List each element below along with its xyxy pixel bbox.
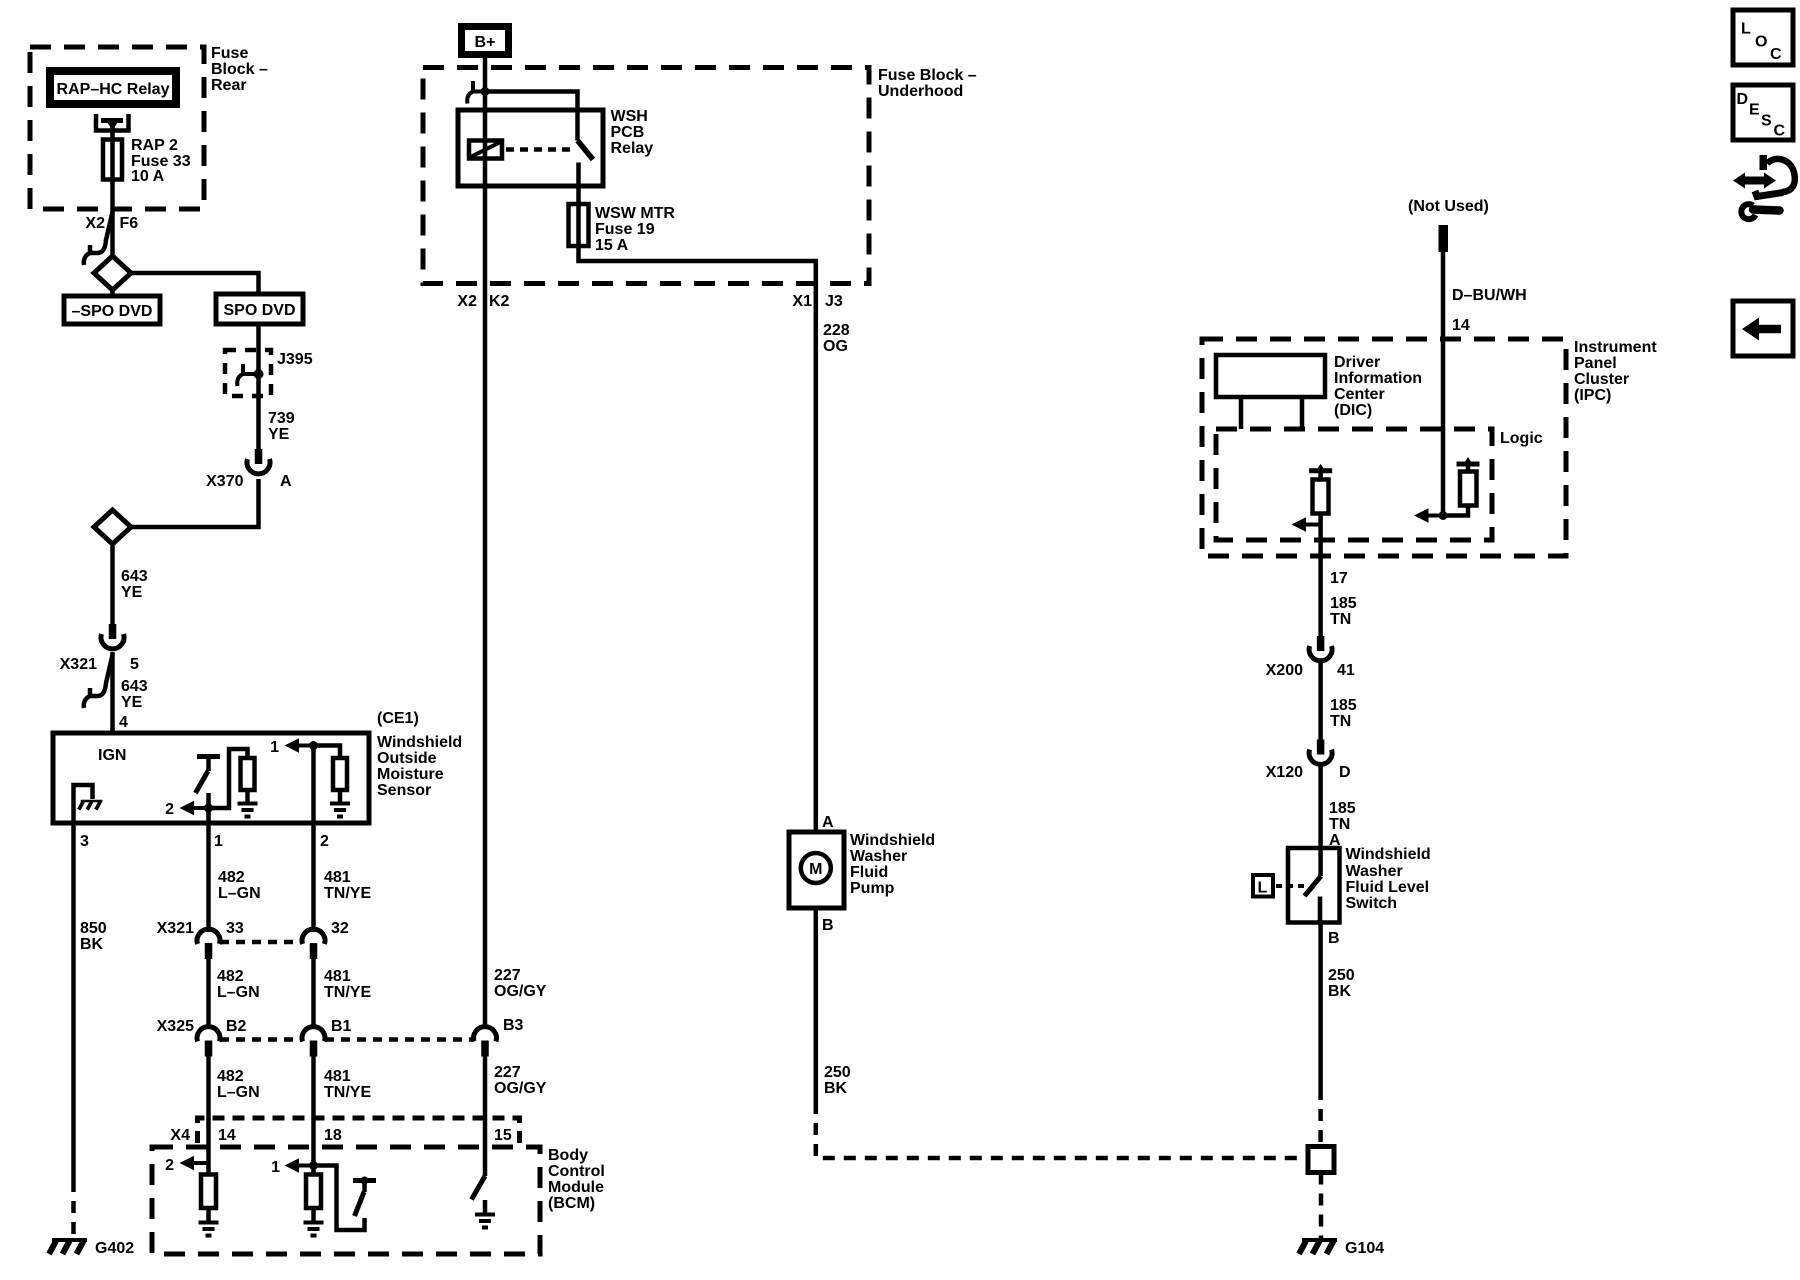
svg-text:X4: X4 xyxy=(170,1127,190,1144)
svg-text:(CE1): (CE1) xyxy=(377,710,419,727)
svg-text:1: 1 xyxy=(271,1159,280,1176)
svg-text:Rear: Rear xyxy=(211,77,247,94)
wire 228 OG (J3 down) xyxy=(814,283,819,832)
wire 250 BK (switch) xyxy=(1318,922,1323,1088)
wire dashed to G402 xyxy=(71,1180,76,1239)
wire 481 TN/YE segment 1 xyxy=(311,823,316,932)
svg-text:(DIC): (DIC) xyxy=(1334,402,1372,419)
wire 481 TN/YE segment 3 xyxy=(311,1056,316,1147)
resistor (sensor R1) xyxy=(241,758,255,790)
relay RAP-HC Relay xyxy=(50,71,176,104)
BCM switch xyxy=(353,1177,376,1217)
svg-text:–SPO DVD: –SPO DVD xyxy=(72,303,153,320)
label 250 BK xyxy=(824,1064,851,1097)
svg-text:Fuse 19: Fuse 19 xyxy=(595,221,655,238)
svg-text:BK: BK xyxy=(80,936,104,953)
ground (BCM pin 15) xyxy=(475,1200,495,1228)
connector X325 row labels xyxy=(157,1017,524,1035)
svg-text:10 A: 10 A xyxy=(131,168,165,185)
dashed wire pump to splice xyxy=(816,1102,1308,1158)
svg-text:Windshield: Windshield xyxy=(1346,846,1431,863)
svg-text:G104: G104 xyxy=(1345,1240,1384,1257)
splice S2 diamond xyxy=(94,510,131,544)
wire D-BU/WH xyxy=(1441,252,1446,516)
connector X120 inline xyxy=(1309,740,1332,765)
ground (sensor R1) xyxy=(238,789,258,817)
svg-text:WSH: WSH xyxy=(611,108,648,125)
svg-text:X120: X120 xyxy=(1266,764,1303,781)
label RAP 2 Fuse 33 10 A xyxy=(131,137,191,185)
relay switch lever xyxy=(578,141,594,247)
svg-text:C: C xyxy=(1774,123,1786,140)
connector X325 link dashed 2 xyxy=(325,1037,474,1042)
svg-text:Logic: Logic xyxy=(1500,430,1543,447)
svg-text:Control: Control xyxy=(548,1163,605,1180)
svg-text:Washer: Washer xyxy=(850,848,907,865)
sensor pin3 ground path xyxy=(74,785,93,823)
curl below X321 xyxy=(84,655,113,708)
BCM wire pin 18 xyxy=(311,1147,316,1175)
svg-text:OG/GY: OG/GY xyxy=(494,983,547,1000)
arrow out (logic left) xyxy=(1292,517,1321,531)
fuse block - rear (dashed box) xyxy=(30,47,204,209)
svg-text:739: 739 xyxy=(268,410,295,427)
svg-text:E: E xyxy=(1749,102,1760,119)
svg-text:17: 17 xyxy=(1330,570,1348,587)
component Windshield Washer Fluid Level Switch xyxy=(1288,848,1340,923)
svg-text:D–BU/WH: D–BU/WH xyxy=(1452,287,1527,304)
wire 481 TN/YE segment 2 xyxy=(311,958,316,1029)
fuse RAP 2 Fuse 33 10A xyxy=(103,140,122,180)
label 482 L-GN xyxy=(218,869,261,902)
svg-text:YE: YE xyxy=(121,694,143,711)
svg-text:15: 15 xyxy=(494,1127,512,1144)
svg-text:O: O xyxy=(1755,34,1767,51)
wire fuse to X1 exit xyxy=(579,246,816,283)
logic dashed box xyxy=(1216,429,1492,540)
relay coil xyxy=(469,141,502,159)
svg-text:TN: TN xyxy=(1330,611,1351,628)
svg-text:228: 228 xyxy=(823,322,850,339)
connector X325 pin B1 xyxy=(302,1027,325,1057)
svg-text:TN/YE: TN/YE xyxy=(324,984,371,1001)
svg-text:Washer: Washer xyxy=(1346,863,1403,880)
curl (underhood) xyxy=(467,81,481,104)
resistor (sensor R2) xyxy=(333,758,347,790)
level switch lever xyxy=(1305,876,1322,922)
svg-text:WSW MTR: WSW MTR xyxy=(595,205,675,222)
relay dashed link xyxy=(506,147,570,152)
svg-text:Switch: Switch xyxy=(1346,895,1398,912)
sensor resistor branch 1 xyxy=(209,749,248,808)
connector X4 strip (dotted) xyxy=(198,1118,520,1143)
svg-text:1: 1 xyxy=(270,739,279,756)
svg-text:TN: TN xyxy=(1330,713,1351,730)
svg-text:2: 2 xyxy=(320,833,329,850)
svg-text:B: B xyxy=(822,917,834,934)
sensor resistor branch 2 xyxy=(314,746,341,759)
labels X200 41 xyxy=(1266,662,1355,679)
svg-text:482: 482 xyxy=(217,1068,244,1085)
svg-text:Body: Body xyxy=(548,1147,588,1164)
svg-text:A: A xyxy=(280,473,292,490)
svg-text:482: 482 xyxy=(217,968,244,985)
svg-text:481: 481 xyxy=(324,869,351,886)
splice pack J395 (dashed box) xyxy=(225,350,271,396)
connector X325 pin B2 xyxy=(197,1027,220,1057)
wire 250 BK (pump) xyxy=(814,908,819,1102)
svg-text:Sensor: Sensor xyxy=(377,782,431,799)
pullup resistor left (logic) xyxy=(1309,464,1332,514)
svg-text:643: 643 xyxy=(121,678,148,695)
svg-text:(BCM): (BCM) xyxy=(548,1195,595,1212)
svg-text:(IPC): (IPC) xyxy=(1574,387,1611,404)
icon DESC button xyxy=(1733,85,1793,140)
junction xyxy=(204,804,213,813)
wire B+ down through coil xyxy=(483,55,488,283)
connector X200 inline xyxy=(1309,636,1332,661)
ground (BCM R1) xyxy=(199,1208,219,1236)
resistor (BCM R2) xyxy=(306,1175,321,1209)
svg-text:481: 481 xyxy=(324,1068,351,1085)
terminal SPO DVD xyxy=(216,294,303,324)
svg-text:Information: Information xyxy=(1334,370,1422,387)
wire 227 OG/GY (K2 down) xyxy=(483,283,488,1029)
label 643 YE (2) xyxy=(121,678,148,711)
svg-text:B3: B3 xyxy=(503,1017,524,1034)
connector X321 link dashed xyxy=(220,940,302,945)
connector X325 pin B3 xyxy=(474,1027,497,1057)
labels X370 A xyxy=(206,473,292,490)
svg-text:Fluid: Fluid xyxy=(850,864,888,881)
svg-text:PCB: PCB xyxy=(611,124,645,141)
sensor wire pin1 internal xyxy=(206,793,211,823)
wire X370 to splice S2 xyxy=(131,479,259,527)
arrow 2 xyxy=(165,801,208,818)
svg-text:X2: X2 xyxy=(457,293,477,310)
wire SPO DVD down to X370 xyxy=(256,324,261,449)
dashed wire switch to splice xyxy=(1318,1088,1323,1147)
svg-text:L–GN: L–GN xyxy=(217,984,260,1001)
label WSW MTR Fuse 19 15 A xyxy=(595,205,675,254)
svg-text:Fluid Level: Fluid Level xyxy=(1346,879,1430,896)
component Windshield Washer Fluid Pump xyxy=(789,832,844,908)
junction xyxy=(1439,511,1448,520)
splice box xyxy=(1308,1147,1334,1173)
connector X321 inline xyxy=(101,624,124,649)
chassis ground (sensor) xyxy=(79,801,103,810)
connector X2/F6 labels xyxy=(85,215,138,232)
terminal -SPO DVD xyxy=(64,296,160,324)
svg-text:481: 481 xyxy=(324,968,351,985)
connector X325 link dashed xyxy=(220,1037,302,1042)
BCM arrow 1 xyxy=(271,1158,313,1176)
svg-text:L–GN: L–GN xyxy=(217,1084,260,1101)
BCM switch pin 15 xyxy=(472,1176,486,1200)
svg-text:D: D xyxy=(1737,91,1749,108)
svg-text:TN/YE: TN/YE xyxy=(324,1084,371,1101)
wire fuse block rear vertical xyxy=(110,124,115,257)
terminal not used xyxy=(1408,198,1489,252)
junction dot xyxy=(481,87,490,96)
svg-text:IGN: IGN xyxy=(98,747,126,764)
svg-text:D: D xyxy=(1339,764,1351,781)
svg-text:250: 250 xyxy=(1328,967,1355,984)
label 481 TN/YE xyxy=(324,1068,371,1101)
svg-text:L: L xyxy=(1258,880,1268,897)
label 185 TN (2) xyxy=(1330,697,1357,730)
svg-text:41: 41 xyxy=(1337,662,1355,679)
icon related documents (curved arrow + arrows + wrench) xyxy=(1733,155,1795,219)
resistor (BCM R1) xyxy=(201,1175,216,1209)
label 739 YE xyxy=(268,410,295,443)
svg-text:Moisture: Moisture xyxy=(377,766,444,783)
wire 482 L-GN segment 3 xyxy=(206,1056,211,1147)
ground (BCM R2) xyxy=(304,1208,324,1236)
level sensor L box xyxy=(1253,875,1304,897)
svg-text:OG/GY: OG/GY xyxy=(494,1080,547,1097)
svg-text:M: M xyxy=(809,861,822,878)
relay WSH PCB box xyxy=(458,110,603,186)
label pump name xyxy=(850,832,935,897)
svg-text:185: 185 xyxy=(1330,697,1357,714)
svg-text:32: 32 xyxy=(331,920,349,937)
svg-text:(Not Used): (Not Used) xyxy=(1408,198,1489,215)
svg-text:Windshield: Windshield xyxy=(850,832,935,849)
wire S1 to -SPO DVD xyxy=(110,290,115,298)
icon LOC button xyxy=(1733,10,1793,65)
svg-text:850: 850 xyxy=(80,920,107,937)
svg-text:X2: X2 xyxy=(85,215,105,232)
svg-text:Panel: Panel xyxy=(1574,355,1617,372)
svg-text:Module: Module xyxy=(548,1179,604,1196)
svg-text:482: 482 xyxy=(218,869,245,886)
fuse WSW MTR Fuse 19 xyxy=(569,204,589,246)
svg-text:RAP 2: RAP 2 xyxy=(131,137,178,154)
svg-text:Underhood: Underhood xyxy=(878,83,963,100)
wire branch to relay switch xyxy=(485,92,578,141)
BCM wire pin 15 xyxy=(483,1147,488,1176)
svg-text:185: 185 xyxy=(1329,800,1356,817)
module IPC dashed box xyxy=(1202,339,1566,556)
fuse block underhood dashed box xyxy=(423,68,869,284)
label 185 TN A xyxy=(1329,800,1356,849)
svg-text:Cluster: Cluster xyxy=(1574,371,1629,388)
label Fuse Block - Underhood xyxy=(878,67,977,100)
svg-text:Fuse Block –: Fuse Block – xyxy=(878,67,977,84)
wire 185 TN mid xyxy=(1318,660,1323,741)
svg-text:X1: X1 xyxy=(792,293,812,310)
svg-text:B: B xyxy=(1328,930,1340,947)
label WSH PCB Relay xyxy=(611,108,654,157)
label 228 OG xyxy=(823,322,850,355)
svg-text:Relay: Relay xyxy=(611,140,654,157)
svg-text:YE: YE xyxy=(121,584,143,601)
svg-text:OG: OG xyxy=(823,338,848,355)
svg-text:J3: J3 xyxy=(825,293,843,310)
label 482 L-GN xyxy=(217,1068,260,1101)
BCM wire pin 14 xyxy=(206,1147,211,1175)
svg-text:18: 18 xyxy=(324,1127,342,1144)
wire 17 out of IPC xyxy=(1318,514,1323,638)
svg-text:Windshield: Windshield xyxy=(377,734,462,751)
label 481 TN/YE xyxy=(324,869,371,902)
svg-text:RAP–HC Relay: RAP–HC Relay xyxy=(57,81,170,98)
svg-text:X321: X321 xyxy=(157,920,194,937)
svg-text:250: 250 xyxy=(824,1064,851,1081)
display DIC xyxy=(1216,355,1325,429)
svg-text:227: 227 xyxy=(494,1064,521,1081)
label level switch name xyxy=(1346,846,1431,912)
svg-text:J395: J395 xyxy=(277,351,313,368)
svg-text:227: 227 xyxy=(494,967,521,984)
svg-text:BK: BK xyxy=(1328,983,1352,1000)
label 482 L-GN xyxy=(217,968,260,1001)
component Windshield Outside Moisture Sensor box xyxy=(53,733,369,823)
ground G402 xyxy=(49,1240,134,1257)
arrow 1 xyxy=(270,738,313,756)
svg-text:B+: B+ xyxy=(475,34,496,51)
svg-text:S: S xyxy=(1761,113,1772,130)
wire 482 L-GN segment 1 xyxy=(206,823,211,932)
svg-text:Block –: Block – xyxy=(211,61,268,78)
wire 850 BK xyxy=(71,823,76,1180)
connector X321 row labels xyxy=(157,920,349,937)
labels X321 5 xyxy=(60,656,139,673)
label 643 YE xyxy=(121,568,148,601)
icon back arrow button xyxy=(1733,301,1793,356)
svg-text:14: 14 xyxy=(1452,317,1470,334)
label 227 OG/GY xyxy=(494,967,547,1000)
svg-text:TN: TN xyxy=(1329,816,1350,833)
svg-text:L–GN: L–GN xyxy=(218,885,261,902)
svg-text:3: 3 xyxy=(80,833,89,850)
svg-text:5: 5 xyxy=(130,656,139,673)
connector X321 pin 33 xyxy=(197,929,220,959)
svg-text:643: 643 xyxy=(121,568,148,585)
pullup resistor right (logic) xyxy=(1443,457,1480,516)
pin labels 3 1 2 xyxy=(80,833,329,850)
splice S1 diamond xyxy=(94,256,131,290)
svg-text:Pump: Pump xyxy=(850,880,895,897)
svg-text:Instrument: Instrument xyxy=(1574,339,1657,356)
BCM arrow 2 xyxy=(165,1156,208,1174)
svg-text:33: 33 xyxy=(226,920,244,937)
svg-text:SPO DVD: SPO DVD xyxy=(223,302,295,319)
sensor switch xyxy=(196,757,221,794)
junction dot J395 xyxy=(254,369,264,379)
svg-text:1: 1 xyxy=(214,833,223,850)
label Fuse Block - Rear xyxy=(211,45,268,94)
labels X2 K2 xyxy=(457,293,509,310)
wire X321 to sensor pin 4 xyxy=(110,652,115,733)
svg-text:BK: BK xyxy=(824,1080,848,1097)
connector X4 labels xyxy=(170,1127,511,1144)
connector curl at X2/F6 xyxy=(84,212,113,265)
svg-text:L: L xyxy=(1741,21,1751,38)
BCM switch branch wire xyxy=(314,1166,365,1231)
arrow (logic right) xyxy=(1414,508,1443,522)
labels X120 D xyxy=(1266,764,1351,781)
svg-text:B2: B2 xyxy=(226,1018,247,1035)
junction xyxy=(309,741,318,750)
svg-text:15 A: 15 A xyxy=(595,237,629,254)
svg-text:G402: G402 xyxy=(95,1240,134,1257)
svg-text:X370: X370 xyxy=(206,473,243,490)
svg-text:C: C xyxy=(1770,46,1782,63)
label 185 TN xyxy=(1330,595,1357,628)
connector X321 pin 32 xyxy=(302,929,325,959)
svg-text:14: 14 xyxy=(218,1127,236,1144)
sensor wire pin2 internal xyxy=(311,746,316,824)
label Body Control Module (BCM) xyxy=(548,1147,605,1212)
label Driver Information Center (DIC) xyxy=(1334,354,1422,419)
svg-text:X200: X200 xyxy=(1266,662,1303,679)
wire 185 TN to switch xyxy=(1318,764,1323,876)
svg-text:2: 2 xyxy=(165,801,174,818)
label D-BU/WH 14 xyxy=(1452,287,1527,334)
svg-text:YE: YE xyxy=(268,426,290,443)
wire S1 to SPO DVD xyxy=(131,273,259,296)
ground (sensor R2) xyxy=(330,789,350,817)
svg-text:F6: F6 xyxy=(120,215,139,232)
svg-text:X321: X321 xyxy=(60,656,97,673)
label 481 TN/YE xyxy=(324,968,371,1001)
svg-text:X325: X325 xyxy=(157,1018,194,1035)
label 250 BK (switch) xyxy=(1328,967,1355,1000)
wire 482 L-GN segment 2 xyxy=(206,958,211,1029)
svg-text:Center: Center xyxy=(1334,386,1385,403)
svg-text:4: 4 xyxy=(119,714,128,731)
svg-text:A: A xyxy=(822,814,834,831)
wire S2 to X321 xyxy=(110,544,115,625)
connector X370 inline xyxy=(247,449,270,474)
ground G104 xyxy=(1299,1240,1384,1257)
junction xyxy=(309,1161,318,1170)
svg-text:2: 2 xyxy=(165,1157,174,1174)
svg-text:185: 185 xyxy=(1330,595,1357,612)
labels X1 J3 xyxy=(792,293,842,310)
svg-text:Outside: Outside xyxy=(377,750,437,767)
svg-text:Driver: Driver xyxy=(1334,354,1380,371)
svg-text:B1: B1 xyxy=(331,1018,352,1035)
svg-text:Fuse: Fuse xyxy=(211,45,248,62)
label (CE1) sensor name xyxy=(377,710,462,799)
dashed wire splice to G104 xyxy=(1319,1173,1324,1240)
label 850 BK xyxy=(80,920,107,953)
label Instrument Panel Cluster (IPC) xyxy=(1574,339,1657,404)
wire 227 OG/GY segment 2 xyxy=(483,1056,488,1147)
curl in J395 xyxy=(237,364,256,386)
svg-text:K2: K2 xyxy=(489,293,510,310)
svg-text:TN/YE: TN/YE xyxy=(324,885,371,902)
module BCM dashed box xyxy=(152,1147,540,1254)
terminal B+ xyxy=(462,27,509,55)
fuse clip terminal xyxy=(96,114,129,131)
label 227 OG/GY (2) xyxy=(494,1064,547,1097)
